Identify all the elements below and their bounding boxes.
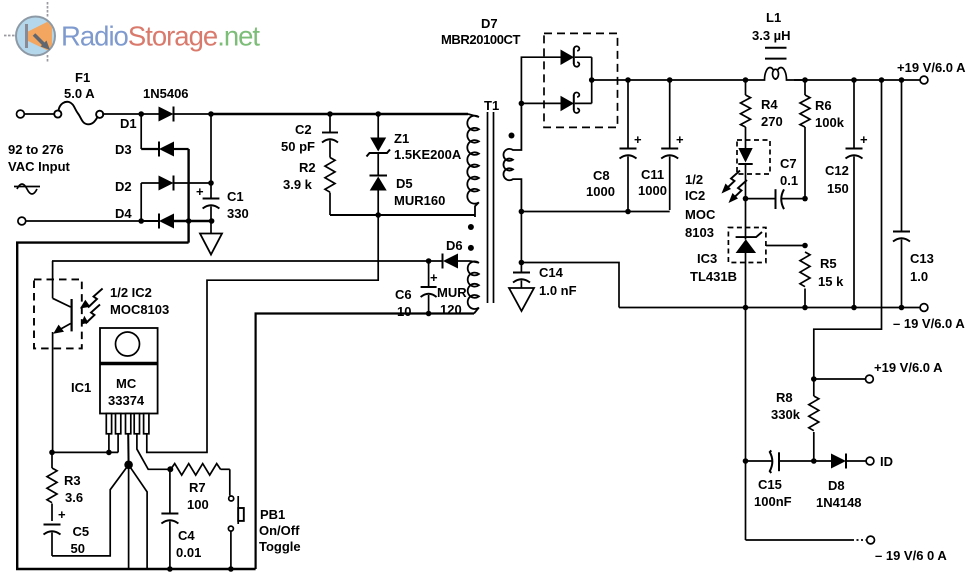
node — [106, 450, 112, 456]
wire input bottom to D2 vertical — [140, 183, 142, 221]
svg-text:R4: R4 — [761, 97, 778, 112]
svg-text:C8: C8 — [593, 168, 610, 183]
svg-text:15 k: 15 k — [818, 274, 844, 289]
svg-text:D7: D7 — [481, 16, 498, 31]
svg-text:R5: R5 — [820, 256, 837, 271]
wire -19 rail — [619, 307, 920, 309]
svg-text:C6: C6 — [395, 287, 412, 302]
node — [899, 305, 905, 311]
LED dashed box — [737, 140, 770, 174]
node — [208, 111, 214, 117]
svg-text:8103: 8103 — [685, 225, 714, 240]
node — [802, 243, 808, 249]
transformer T1 — [467, 98, 521, 314]
svg-text:50 pF: 50 pF — [281, 139, 315, 154]
svg-text:5.0 A: 5.0 A — [64, 86, 95, 101]
svg-text:C2: C2 — [295, 122, 312, 137]
svg-text:F1: F1 — [75, 70, 90, 85]
svg-text:33374: 33374 — [108, 393, 145, 408]
svg-text:270: 270 — [761, 114, 783, 129]
node — [625, 209, 631, 215]
svg-text:1N5406: 1N5406 — [143, 86, 189, 101]
node — [743, 305, 749, 311]
node — [167, 466, 173, 472]
svg-text:1.0: 1.0 — [910, 269, 928, 284]
svg-text:1.0 nF: 1.0 nF — [539, 283, 577, 298]
wire center node down — [128, 465, 130, 569]
logo transistor icon — [4, 2, 55, 62]
node — [589, 77, 595, 83]
wire IC3 ref to divider — [766, 245, 805, 247]
node — [802, 77, 808, 83]
svg-text:120: 120 — [440, 302, 462, 317]
node — [743, 196, 749, 202]
svg-text:+19 V/6.0 A: +19 V/6.0 A — [874, 360, 943, 375]
wire D7 cathode vertical — [591, 57, 593, 103]
IC1 MC33374 package — [71, 328, 158, 414]
zener Z1 — [367, 114, 462, 162]
ground below C1 — [200, 221, 222, 255]
svg-text:50: 50 — [71, 541, 85, 556]
node — [519, 260, 525, 266]
svg-text:C7: C7 — [780, 156, 797, 171]
svg-text:IC2: IC2 — [685, 188, 705, 203]
svg-text:MBR20100CT: MBR20100CT — [441, 32, 521, 47]
svg-text:IC3: IC3 — [697, 251, 717, 266]
svg-text:D8: D8 — [828, 478, 845, 493]
node — [138, 111, 144, 117]
wire main thick top line — [211, 113, 468, 116]
svg-text:R2: R2 — [299, 160, 316, 175]
terminal +19V second — [814, 378, 865, 380]
svg-text:MC: MC — [116, 376, 137, 391]
node — [228, 566, 234, 572]
svg-text:– 19 V/6 0 A: – 19 V/6 0 A — [875, 548, 947, 563]
terminal -19V — [920, 304, 928, 312]
node — [879, 77, 885, 83]
node — [811, 458, 817, 464]
svg-text:D2: D2 — [115, 179, 132, 194]
terminal -19V bottom — [867, 536, 875, 544]
svg-text:C11: C11 — [641, 167, 664, 182]
svg-text:PB1: PB1 — [260, 507, 285, 522]
svg-text:RadioStorage.net: RadioStorage.net — [61, 21, 260, 52]
wire C14 node to -19 rail — [521, 263, 619, 308]
wire Z1 to D5 — [377, 153, 379, 175]
core — [487, 112, 489, 303]
capacitor C4 — [161, 469, 201, 569]
node — [899, 77, 905, 83]
svg-text:1N4148: 1N4148 — [816, 495, 862, 510]
wire secondary bottom to C14 — [520, 212, 522, 273]
fuse F1 — [54, 70, 103, 124]
resistor R4 — [741, 80, 783, 148]
terminal ID — [866, 457, 874, 465]
polarity dots — [468, 224, 474, 230]
secondary winding — [503, 103, 521, 211]
diode D8 — [814, 454, 866, 511]
svg-text:R6: R6 — [815, 98, 832, 113]
wire center node left diag to C5 — [52, 465, 129, 556]
wire bridge negative to left — [17, 243, 255, 569]
svg-text:D5: D5 — [396, 176, 413, 191]
svg-text:D6: D6 — [446, 238, 463, 253]
capacitor C15 — [746, 450, 814, 509]
LED light arrows — [722, 171, 748, 204]
wire -19 column down from rail — [745, 308, 747, 541]
svg-text:L1: L1 — [766, 10, 781, 25]
diode D7a — [561, 46, 592, 66]
node — [519, 101, 525, 107]
svg-text:+: + — [196, 184, 204, 199]
svg-text:R7: R7 — [189, 480, 206, 495]
node — [327, 111, 333, 117]
svg-text:+19 V/6.0 A: +19 V/6.0 A — [897, 60, 966, 75]
resistor R6 — [800, 80, 845, 199]
capacitor C5 — [44, 507, 90, 556]
svg-text:+: + — [634, 132, 642, 147]
svg-text:+: + — [860, 132, 868, 147]
wire secondary top to D7 — [521, 57, 560, 103]
capacitor C1 — [196, 114, 249, 221]
node — [375, 111, 381, 117]
wire pin4 to R7 — [137, 434, 170, 469]
wire center node right diag — [129, 465, 148, 569]
svg-text:C1: C1 — [227, 189, 244, 204]
node center — [124, 461, 133, 470]
svg-text:D4: D4 — [115, 206, 132, 221]
diode D1 — [120, 107, 211, 132]
svg-text:+: + — [58, 507, 66, 522]
svg-text:IC1: IC1 — [71, 380, 91, 395]
capacitor C12 — [825, 80, 868, 308]
svg-text:150: 150 — [827, 181, 849, 196]
wire drain down-left to IC1 pin5 — [147, 215, 378, 452]
resistor R2 — [283, 158, 335, 216]
wire pin3 to center node — [127, 434, 129, 465]
capacitor C2 — [281, 114, 338, 158]
wire right loop up — [256, 314, 474, 570]
svg-text:MUR: MUR — [437, 285, 467, 300]
wire +19 output line — [592, 79, 746, 81]
resistor R5 — [800, 252, 844, 308]
wire drain line — [330, 214, 475, 216]
svg-text:1/2 IC2: 1/2 IC2 — [110, 285, 152, 300]
diode D5 — [370, 176, 446, 216]
node — [743, 458, 749, 464]
svg-text:330: 330 — [227, 206, 249, 221]
svg-text:VAC Input: VAC Input — [8, 159, 71, 174]
svg-text:C14: C14 — [539, 265, 564, 280]
node — [186, 218, 192, 224]
node — [49, 450, 55, 456]
node — [167, 566, 173, 572]
inductor L1 — [746, 10, 808, 80]
svg-text:Z1: Z1 — [394, 131, 409, 146]
svg-text:MUR160: MUR160 — [394, 193, 445, 208]
svg-text:D3: D3 — [115, 142, 132, 157]
node — [625, 77, 631, 83]
IC3 TL431B — [690, 199, 766, 308]
wire thick vertical D3 to D4 to bottom — [187, 149, 189, 243]
svg-text:330k: 330k — [771, 407, 801, 422]
diode D2 — [115, 176, 211, 195]
capacitor C11 — [638, 80, 684, 210]
svg-text:3.6: 3.6 — [65, 490, 83, 505]
capacitor C6 — [395, 261, 438, 319]
node — [138, 218, 144, 224]
svg-text:100k: 100k — [815, 115, 845, 130]
D7 dashed box — [544, 33, 618, 127]
svg-text:C13: C13 — [910, 251, 934, 266]
diode D4 — [115, 206, 212, 229]
wire fuse to D1 node — [102, 113, 141, 115]
svg-text:C4: C4 — [178, 528, 195, 543]
svg-text:– 19 V/6.0 A: – 19 V/6.0 A — [893, 316, 965, 331]
resistor R3 — [47, 452, 83, 521]
switch PB1 — [228, 469, 300, 569]
svg-text:100nF: 100nF — [754, 494, 792, 509]
AC earth symbol — [14, 184, 40, 194]
wire secondary bottom line — [521, 211, 669, 213]
svg-text:1.5KE200A: 1.5KE200A — [394, 147, 462, 162]
wire D1 node down to D3 — [140, 114, 142, 149]
svg-text:0.1: 0.1 — [780, 173, 798, 188]
ground below C14 — [509, 288, 534, 311]
diode D6 — [437, 238, 470, 317]
svg-text:T1: T1 — [484, 98, 499, 113]
resistor R7 — [171, 464, 230, 512]
svg-text:On/Off: On/Off — [259, 523, 300, 538]
svg-text:Toggle: Toggle — [259, 539, 301, 554]
svg-text:3.9 k: 3.9 k — [283, 177, 313, 192]
svg-text:ID: ID — [880, 454, 893, 469]
aux winding — [468, 261, 479, 314]
svg-text:+: + — [430, 270, 438, 285]
svg-text:92 to 276: 92 to 276 — [8, 142, 64, 157]
capacitor C14 — [513, 265, 577, 298]
wire aux winding line y261 — [52, 260, 443, 262]
svg-text:1000: 1000 — [638, 183, 667, 198]
svg-text:1/2: 1/2 — [685, 172, 703, 187]
node — [851, 305, 857, 311]
svg-text:MOC8103: MOC8103 — [110, 302, 169, 317]
node — [802, 305, 808, 311]
wire pin1 pin2 to left line — [52, 434, 118, 453]
svg-text:0.01: 0.01 — [176, 545, 201, 560]
node — [208, 180, 214, 186]
svg-text:10: 10 — [397, 304, 411, 319]
svg-text:TL431B: TL431B — [690, 269, 737, 284]
svg-text:C5: C5 — [73, 524, 90, 539]
diode D7b — [521, 92, 591, 112]
node — [851, 77, 857, 83]
node — [519, 209, 525, 215]
svg-text:+: + — [676, 132, 684, 147]
node — [426, 311, 432, 317]
node — [667, 77, 673, 83]
node — [426, 258, 432, 264]
primary winding — [467, 114, 479, 217]
wire — [25, 113, 55, 115]
svg-text:R3: R3 — [64, 473, 81, 488]
svg-text:MOC: MOC — [685, 207, 716, 222]
capacitor C7 — [746, 156, 806, 209]
node — [743, 77, 749, 83]
resistor R8 — [771, 379, 819, 461]
svg-text:100: 100 — [187, 497, 209, 512]
node — [375, 212, 381, 218]
node — [209, 218, 215, 224]
optocoupler phototransistor 1/2 IC2 — [34, 261, 169, 452]
capacitor C13 — [893, 80, 934, 308]
wire — [26, 220, 141, 222]
LED 1/2 IC2 — [738, 148, 752, 199]
node — [811, 376, 817, 382]
capacitor C8 — [586, 80, 642, 210]
svg-text:1000: 1000 — [586, 184, 615, 199]
wire bottom -19 lead — [746, 539, 853, 541]
svg-text:C12: C12 — [825, 163, 849, 178]
opto light arrows — [80, 289, 103, 325]
diode D3 — [115, 142, 189, 158]
svg-text:R8: R8 — [776, 390, 793, 405]
svg-text:3.3 µH: 3.3 µH — [752, 28, 791, 43]
terminal +19V — [920, 76, 928, 84]
terminal AC input bottom — [18, 217, 26, 225]
node — [802, 196, 808, 202]
svg-text:D1: D1 — [120, 116, 137, 131]
wire +19 tap for R8 — [814, 80, 882, 379]
svg-text:C15: C15 — [758, 477, 782, 492]
terminal AC input top — [17, 110, 25, 118]
IC1 pins — [106, 414, 149, 434]
